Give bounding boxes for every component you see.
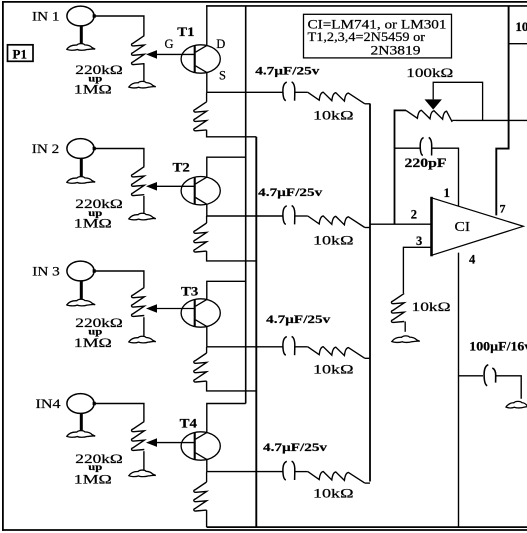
- input jack IN1: [67, 6, 96, 46]
- capacitor 220pF: [420, 137, 432, 155]
- resistor 10k (pin 3): [391, 293, 404, 322]
- wire: mixing bus top to 100k pot left: [395, 110, 407, 224]
- info box: device equivalences: [304, 14, 452, 58]
- svg-text:100kΩ: 100kΩ: [406, 66, 453, 80]
- svg-text:1: 1: [444, 185, 451, 200]
- resistor 10k #3: [308, 347, 365, 359]
- ground (jack IN3): [67, 299, 95, 306]
- svg-text:4.7µF/25v: 4.7µF/25v: [266, 312, 330, 326]
- wire: pot 2 bottom to ground: [143, 196, 145, 215]
- svg-text:100µF/16v: 100µF/16v: [469, 338, 527, 353]
- svg-text:IN 2: IN 2: [32, 142, 59, 156]
- wire: T1 drain: [206, 6, 208, 46]
- svg-text:4.7µF/25v: 4.7µF/25v: [258, 185, 322, 199]
- wire: T3 drain: [207, 281, 246, 299]
- wire: cap #2 to resistor: [295, 215, 308, 217]
- border frame: [2, 1, 527, 3]
- potentiometer 220k/1M #2: [132, 167, 145, 196]
- svg-text:up: up: [88, 462, 102, 472]
- svg-text:up: up: [88, 327, 102, 337]
- wire: 220pF left: [395, 147, 421, 149]
- capacitor 100uF/16: [484, 365, 496, 386]
- wire: resistor #3 to mixing bus: [365, 357, 370, 359]
- wire: ground bottom rail: [207, 526, 527, 528]
- svg-text:4.7µF/25v: 4.7µF/25v: [263, 440, 327, 454]
- svg-text:T4: T4: [180, 415, 198, 430]
- wire: pin 7 supply: [496, 6, 508, 216]
- wire: cap #4 to resistor: [295, 471, 308, 473]
- svg-text:1MΩ: 1MΩ: [74, 336, 112, 350]
- input jack IN4: [67, 394, 96, 433]
- svg-text:1MΩ: 1MΩ: [74, 83, 112, 97]
- svg-text:1MΩ: 1MΩ: [74, 472, 112, 486]
- wire: 100uF to ground: [496, 376, 521, 399]
- wire: V+ vertical bus: [245, 6, 247, 404]
- resistor source T3: [206, 347, 208, 353]
- capacitor 4.7uF/25v #3: [283, 336, 295, 355]
- wiper arrow pot 2: [146, 182, 157, 191]
- wire: output to 100uF cap: [459, 375, 484, 377]
- wiper arrow pot 1: [146, 50, 157, 59]
- svg-text:P1: P1: [13, 46, 27, 61]
- ground (pot 1): [129, 81, 156, 88]
- ground (jack IN2): [67, 177, 95, 184]
- wire: cap #1 to resistor: [295, 91, 308, 93]
- ground (pin 3): [392, 336, 420, 343]
- resistor source T1: [206, 92, 208, 102]
- wire: 100k wiper strap: [433, 82, 482, 120]
- wire: T2 source: [206, 204, 208, 216]
- wire: pin 4 down to ground rail: [458, 253, 460, 527]
- wire: ground vertical bus: [255, 137, 257, 527]
- capacitor 4.7uF/25v #2: [283, 206, 295, 225]
- potentiometer 220k/1M #4: [132, 421, 145, 450]
- svg-text:T3: T3: [181, 284, 199, 299]
- svg-text:G: G: [165, 37, 174, 51]
- svg-text:S: S: [219, 69, 226, 83]
- wire: T3 source resistor to ground bus: [207, 381, 257, 391]
- wire: pot 3 bottom to ground: [143, 317, 145, 338]
- wire: T2 source row to coupling cap: [207, 215, 283, 217]
- wire: IN4 jack to pot P4: [94, 404, 144, 422]
- svg-text:3: 3: [416, 234, 422, 248]
- wire: T3 source: [206, 327, 208, 347]
- potentiometer 100k: [406, 110, 452, 122]
- wire: cap #3 to resistor: [295, 346, 308, 348]
- input jack IN2: [67, 139, 96, 179]
- svg-text:2N3819: 2N3819: [371, 44, 421, 58]
- svg-text:IN 1: IN 1: [32, 9, 60, 23]
- wire: T4 source row to coupling cap: [207, 471, 283, 473]
- wire: T1 source: [206, 73, 208, 93]
- wire: T3 source row to coupling cap: [207, 346, 283, 348]
- svg-text:10kΩ: 10kΩ: [313, 109, 354, 123]
- wire: T2 drain: [207, 157, 246, 177]
- op-amp CI: [432, 197, 524, 256]
- transistor T1 (JFET): [157, 45, 220, 73]
- input jack IN3: [67, 261, 96, 301]
- cropped component top right: [509, 43, 527, 45]
- wire: IN1 jack to pot P1: [94, 16, 144, 36]
- wire: resistor #1 to mixing bus: [365, 103, 370, 105]
- node P1: [8, 45, 34, 62]
- svg-text:7: 7: [500, 202, 506, 216]
- ground (pot 3): [129, 336, 156, 343]
- wire: pin3 resistor to ground: [404, 322, 406, 332]
- svg-text:IN 3: IN 3: [32, 264, 59, 278]
- capacitor 4.7uF/25v #1: [283, 82, 295, 101]
- wiper arrow 100k: [425, 99, 442, 109]
- ground (pot 2): [129, 213, 156, 220]
- resistor source T4: [206, 472, 208, 482]
- wire: resistor #4 to mixing bus: [365, 482, 370, 484]
- wire: T4 source resistor to bottom rail: [206, 510, 208, 527]
- svg-text:10kΩ: 10kΩ: [313, 233, 354, 247]
- wire: IN2 jack to pot P2: [94, 149, 144, 167]
- wire: pot 1 bottom to ground: [143, 63, 145, 83]
- ground (jack IN1): [67, 44, 95, 51]
- svg-text:CI: CI: [455, 220, 471, 235]
- wire: T2 source resistor to ground bus: [207, 251, 257, 261]
- wire: pin 2 input: [370, 223, 432, 225]
- svg-text:4.7µF/25v: 4.7µF/25v: [255, 64, 319, 78]
- wire: resistor #2 to mixing bus: [365, 227, 370, 229]
- resistor 10k #4: [308, 472, 365, 484]
- wiper arrow pot 4: [146, 438, 157, 447]
- ground (jack IN4): [67, 431, 95, 438]
- ground (pot 4): [129, 470, 156, 477]
- svg-text:D: D: [216, 37, 225, 51]
- svg-text:IN4: IN4: [36, 397, 62, 411]
- resistor 10k #2: [308, 216, 365, 228]
- wiper arrow pot 3: [146, 304, 157, 313]
- wire: 100k pot output to right edge: [457, 119, 527, 121]
- svg-text:T1: T1: [177, 24, 194, 39]
- transistor T2 (JFET): [157, 177, 220, 205]
- resistor 10k #1: [308, 92, 365, 104]
- transistor T3 (JFET): [157, 299, 220, 327]
- svg-text:220pF: 220pF: [405, 155, 447, 170]
- svg-text:10kΩ: 10kΩ: [313, 487, 354, 501]
- capacitor 4.7uF/25v #4: [283, 461, 295, 480]
- wire: pin 3 to resistor: [403, 247, 431, 293]
- svg-text:4: 4: [469, 253, 476, 267]
- wire: T1 source resistor to ground bus: [207, 130, 257, 137]
- wire: mixing bus to pin 2: [369, 104, 371, 482]
- potentiometer 220k/1M #3: [132, 287, 145, 316]
- svg-text:10kΩ: 10kΩ: [412, 300, 451, 314]
- wire: T4 source: [206, 460, 208, 472]
- potentiometer 220k/1M #1: [132, 36, 145, 65]
- svg-text:T2: T2: [173, 160, 190, 175]
- svg-text:100: 100: [515, 19, 527, 34]
- transistor T4 (JFET): [157, 432, 220, 460]
- svg-text:1MΩ: 1MΩ: [74, 217, 112, 231]
- wire: V+ top rail: [206, 5, 527, 7]
- wire: T4 drain: [207, 404, 246, 433]
- wire: T1 source row to coupling cap: [207, 91, 283, 93]
- resistor source T2: [206, 216, 208, 223]
- wire: 220pF right to pin 1: [432, 148, 459, 208]
- ground (output): [506, 401, 527, 408]
- svg-text:T1,2,3,4=2N5459 or: T1,2,3,4=2N5459 or: [308, 30, 426, 44]
- svg-text:10kΩ: 10kΩ: [313, 363, 354, 377]
- wire: pot 4 bottom to ground: [143, 451, 145, 472]
- svg-text:2: 2: [411, 208, 417, 222]
- wire: IN3 jack to pot P3: [94, 271, 144, 287]
